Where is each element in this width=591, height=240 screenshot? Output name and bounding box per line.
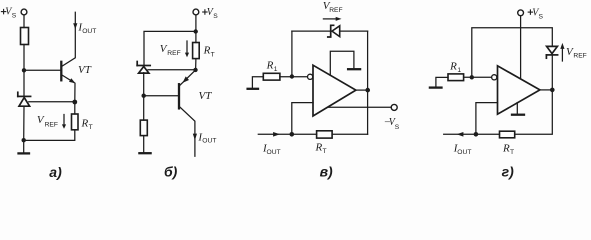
svg-text:R: R	[449, 60, 457, 72]
diode feedback (v)	[328, 25, 340, 37]
label Iout (g)	[453, 143, 472, 157]
svg-text:VT: VT	[78, 64, 92, 76]
wire output (v)	[356, 89, 368, 91]
label +Vs (g)	[532, 7, 540, 18]
node Rt bottom junction (b)	[193, 68, 197, 72]
resistor Rt (v)	[317, 131, 333, 138]
node bottom junction (a)	[22, 138, 26, 142]
node Iout junction (v)	[290, 132, 295, 137]
wire zener cathode to collector node (b)	[148, 69, 196, 71]
wire base (b)	[144, 95, 179, 97]
node emitter junction (a)	[72, 100, 77, 105]
terminal +Vs (g)	[518, 10, 524, 16]
wire Rt to Iout node (g)	[476, 133, 500, 135]
svg-text:REF: REF	[329, 7, 342, 14]
transistor VT (b) emitter arrow	[183, 76, 190, 83]
svg-text:R: R	[502, 143, 510, 155]
wire zener to output node (g)	[551, 56, 553, 90]
node inverting junction (v)	[290, 74, 294, 78]
wire zener anode down left rail (b)	[143, 73, 145, 120]
svg-text:S: S	[12, 12, 17, 19]
svg-text:R: R	[266, 59, 274, 71]
ground stub on op-amp top edge (v)	[330, 51, 354, 75]
wire non-inverting input (g)	[476, 103, 498, 135]
wire non-inverting input (v)	[292, 103, 313, 135]
node top junction (b)	[194, 29, 198, 33]
ground stub on op-amp bottom edge (g)	[516, 103, 518, 114]
wire output down to Rt (v)	[367, 90, 369, 134]
label Rt (b)	[203, 44, 215, 58]
svg-text:1: 1	[457, 67, 461, 74]
svg-text:R: R	[203, 44, 211, 56]
wire +Vs down to Rt (b)	[195, 15, 197, 43]
wire output (g)	[540, 89, 552, 91]
wire resistor to ground (b)	[143, 136, 145, 153]
svg-text:OUT: OUT	[82, 28, 96, 35]
label Vref (a)	[37, 114, 58, 128]
resistor Rt (a)	[72, 114, 79, 130]
label Rt (v)	[315, 141, 327, 155]
current arrow Iout (b)	[193, 134, 197, 141]
label Iout (a)	[77, 21, 96, 35]
svg-text:OUT: OUT	[202, 138, 216, 145]
terminal +Vs (a)	[21, 9, 27, 15]
wire from +Vs terminal to resistor (a)	[23, 15, 25, 28]
ground input stub (g)	[436, 77, 448, 86]
terminal -Vs (v)	[391, 104, 397, 110]
svg-text:OUT: OUT	[457, 149, 471, 156]
current arrow Iout right (v)	[273, 132, 280, 137]
svg-text:S: S	[395, 124, 400, 131]
svg-text:T: T	[89, 124, 93, 131]
resistor R1 (g)	[448, 74, 464, 81]
svg-text:T: T	[323, 148, 327, 155]
label R1 (v)	[266, 59, 278, 73]
wire feedback up and across (g)	[472, 28, 553, 78]
svg-text:OUT: OUT	[267, 149, 281, 156]
zener diode (a)	[18, 92, 31, 106]
svg-text:REF: REF	[167, 50, 180, 57]
wire output down and left to Rt (g)	[515, 90, 553, 134]
wire R1 to inverting input (v)	[280, 76, 308, 78]
svg-text:в): в)	[320, 163, 333, 179]
label +Vs (a)	[5, 7, 13, 18]
node base junction (a)	[22, 68, 26, 72]
label R1 (g)	[449, 60, 461, 74]
wire Rt to bottom (a)	[24, 130, 75, 141]
wire R1 to inverting input (g)	[464, 76, 492, 78]
resistor (upper bias resistor, a)	[21, 28, 29, 45]
wire zener cathode to emitter node (a)	[29, 101, 75, 103]
label Iout (b)	[197, 132, 216, 145]
svg-text:S: S	[213, 13, 218, 20]
transistor VT (b) emitter	[180, 70, 196, 85]
label Rt (g)	[502, 143, 514, 157]
resistor lower-left (b)	[140, 120, 147, 136]
label Vref (b)	[160, 43, 181, 57]
ground (a)	[19, 152, 30, 154]
label +Vs (b)	[207, 7, 215, 18]
svg-text:1: 1	[274, 66, 278, 73]
node Iout junction (g)	[474, 132, 479, 137]
zener diode (g)	[546, 46, 557, 58]
wire node to resistor Rt (a)	[74, 102, 76, 114]
wire Rt to node (b)	[195, 59, 197, 70]
label Vref (g)	[566, 46, 587, 60]
current arrow Iout left (g)	[457, 132, 464, 137]
label Iout (v)	[262, 142, 281, 156]
wire top rail to left (b)	[144, 31, 196, 64]
terminal +Vs (b)	[193, 9, 199, 15]
transistor VT (a) emitter arrow	[69, 78, 75, 83]
current arrow Iout (a)	[73, 23, 77, 29]
resistor Rt (g)	[500, 131, 515, 138]
svg-text:REF: REF	[573, 52, 586, 59]
wire emitter to node (a)	[74, 83, 76, 102]
transistor VT (a) base bar	[60, 62, 62, 81]
label -Vs (v)	[384, 117, 400, 131]
svg-text:а): а)	[49, 164, 62, 180]
svg-text:R: R	[81, 117, 89, 129]
label Vref (v)	[323, 0, 343, 14]
op-amp input bubble (g)	[492, 75, 497, 80]
arrow Vref right (v)	[323, 18, 336, 20]
wire resistor to zener rail (a)	[23, 45, 25, 96]
transistor VT (a) collector	[61, 12, 75, 66]
wire base (a)	[24, 69, 61, 71]
resistor R1 (v)	[263, 73, 280, 80]
svg-text:REF: REF	[45, 121, 58, 128]
transistor VT (b) base bar	[178, 84, 180, 108]
resistor Rt (b)	[193, 43, 200, 59]
node base junction (b)	[142, 94, 146, 98]
wire Iout (v)	[258, 133, 316, 135]
ground (b)	[139, 152, 150, 154]
arrow Vref down (a)	[63, 115, 65, 126]
op-amp U2 (g)	[498, 66, 540, 114]
svg-text:T: T	[211, 51, 215, 58]
svg-text:г): г)	[502, 164, 514, 180]
op-amp input bubble (v)	[308, 74, 313, 79]
node output junction (v)	[365, 88, 370, 93]
zener diode (b)	[137, 62, 150, 74]
transistor VT (b) collector	[180, 107, 195, 156]
label Rt (a)	[81, 117, 93, 131]
wire zener to ground node (a)	[23, 106, 25, 140]
wire node to ground (a)	[23, 140, 25, 152]
svg-text:б): б)	[164, 163, 178, 179]
wire Rt to output leg (v)	[332, 133, 368, 135]
node output junction (g)	[550, 88, 555, 93]
wire feedback down to output (v)	[367, 31, 369, 90]
wire -Vs pin (v)	[328, 106, 392, 108]
wire feedback up (v)	[291, 31, 293, 76]
op-amp U1 (v)	[313, 65, 356, 116]
wire feedback top (v)	[292, 30, 368, 32]
svg-text:R: R	[315, 141, 323, 153]
svg-text:T: T	[510, 149, 514, 156]
node inverting junction (g)	[470, 75, 474, 79]
transistor VT (a) emitter	[61, 75, 74, 83]
ground input stub (v)	[252, 77, 263, 88]
wire Iout left (g)	[444, 133, 476, 135]
svg-text:S: S	[539, 13, 544, 20]
arrow Vref down (b)	[186, 41, 188, 53]
arrow Vref up (g)	[561, 48, 563, 62]
svg-text:VT: VT	[199, 90, 213, 102]
wire +Vs down to op-amp (g)	[520, 16, 522, 78]
